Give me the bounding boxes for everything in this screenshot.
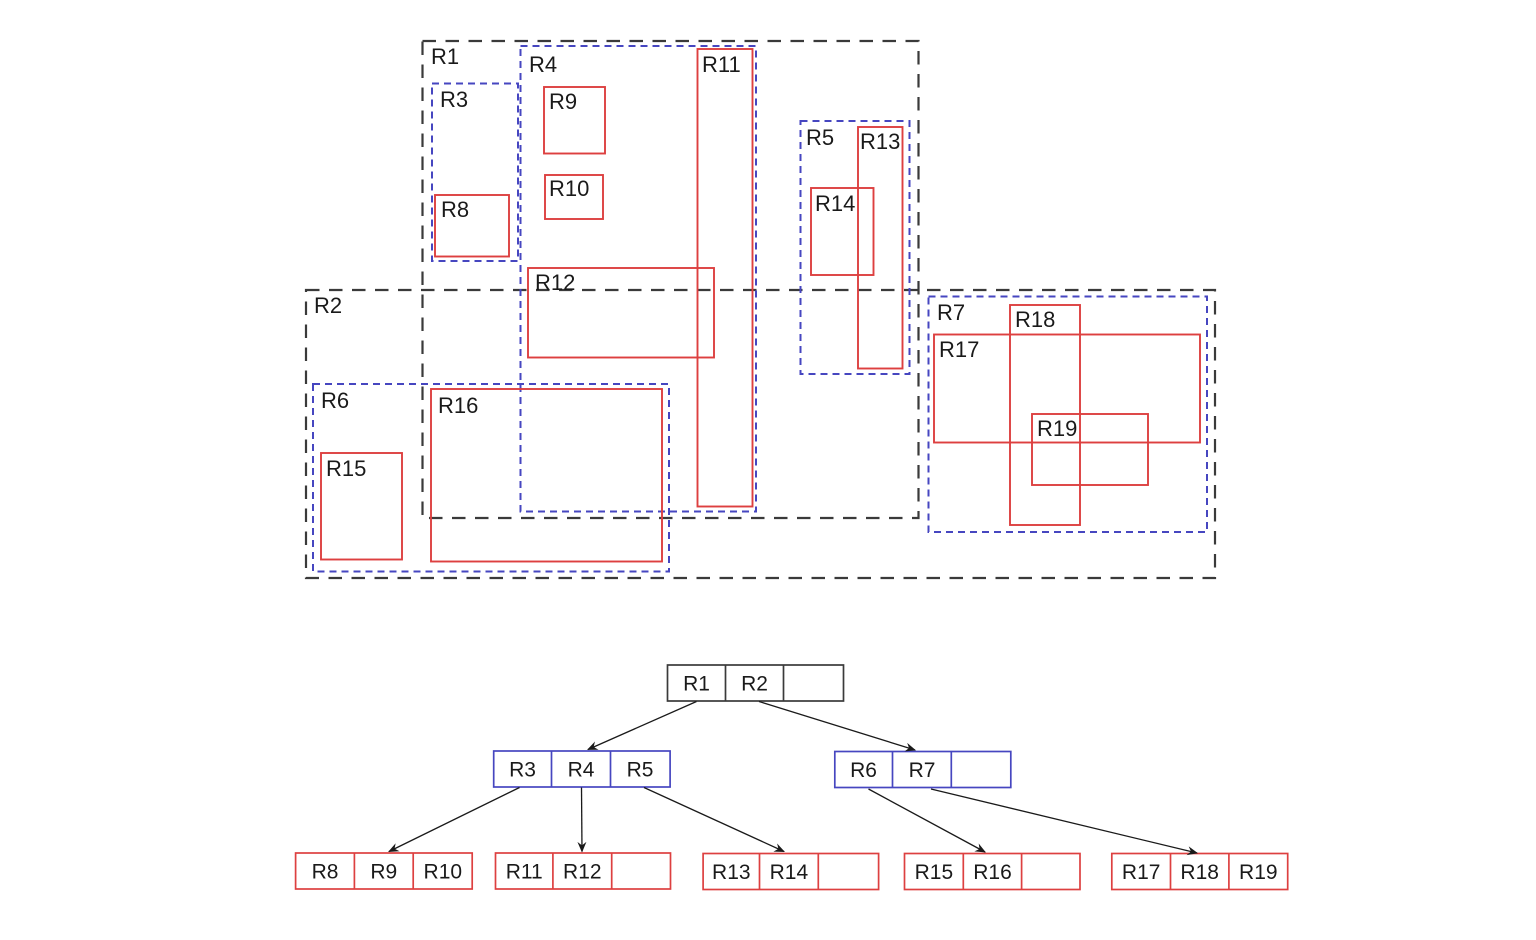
svg-text:R6: R6 xyxy=(850,759,877,782)
svg-text:R14: R14 xyxy=(770,861,809,884)
arrow root R1 cell to node R3R4R5 xyxy=(588,702,697,750)
svg-text:R15: R15 xyxy=(326,456,366,481)
svg-text:R9: R9 xyxy=(370,861,397,884)
svg-text:R8: R8 xyxy=(312,861,339,884)
svg-text:R17: R17 xyxy=(939,337,979,362)
tree leaf [R13|R14| ] xyxy=(703,854,879,890)
arrow R4 cell to leaf R11R12 xyxy=(581,788,584,852)
svg-text:R15: R15 xyxy=(915,861,954,884)
node R6 (blue dashed region) xyxy=(313,384,669,572)
rect R14 (red) xyxy=(811,188,874,275)
svg-text:R4: R4 xyxy=(529,52,557,77)
svg-text:R5: R5 xyxy=(627,759,654,782)
arrow root R2 cell to node R6R7 xyxy=(759,702,915,751)
rect R16 (red) xyxy=(431,389,662,562)
svg-text:R2: R2 xyxy=(314,293,342,318)
rect R19 (red) xyxy=(1032,414,1148,485)
rect R12 (red) xyxy=(528,268,714,358)
tree node [R6|R7| ] xyxy=(835,752,1011,788)
svg-text:R1: R1 xyxy=(431,44,459,69)
arrow R7 cell to leaf R17R18R19 xyxy=(931,789,1197,853)
svg-text:R11: R11 xyxy=(702,52,741,77)
tree leaf [R15|R16| ] xyxy=(905,854,1081,890)
node R2 (black dashed region) xyxy=(306,290,1215,578)
node R4 (blue dashed region) xyxy=(521,46,757,512)
svg-text:R14: R14 xyxy=(815,191,855,216)
arrow R3 cell to leaf R8R9R10 xyxy=(389,788,520,852)
svg-text:R7: R7 xyxy=(909,759,936,782)
svg-text:R13: R13 xyxy=(712,861,751,884)
svg-text:R12: R12 xyxy=(535,270,575,295)
rect R10 (red) xyxy=(545,175,603,219)
tree root node [R1|R2| ] xyxy=(668,665,844,701)
tree leaf [R8|R9|R10] xyxy=(296,853,473,889)
svg-text:R16: R16 xyxy=(438,393,478,418)
svg-text:R7: R7 xyxy=(937,300,965,325)
svg-text:R11: R11 xyxy=(506,861,543,884)
svg-text:R10: R10 xyxy=(424,861,463,884)
svg-text:R8: R8 xyxy=(441,197,469,222)
svg-text:R3: R3 xyxy=(509,759,536,782)
arrow R5 cell to leaf R13R14 xyxy=(644,788,784,852)
node R3 (blue dashed region) xyxy=(432,84,518,262)
svg-text:R9: R9 xyxy=(549,89,577,114)
svg-text:R13: R13 xyxy=(860,129,900,154)
svg-text:R16: R16 xyxy=(973,861,1012,884)
svg-text:R4: R4 xyxy=(568,759,595,782)
svg-text:R18: R18 xyxy=(1015,307,1055,332)
node R1 (black dashed region) xyxy=(423,41,919,518)
rect R15 (red) xyxy=(321,453,402,560)
rect R11 (red) xyxy=(698,49,753,507)
node R7 (blue dashed region) xyxy=(929,297,1208,533)
svg-text:R1: R1 xyxy=(683,673,710,696)
svg-text:R2: R2 xyxy=(741,673,768,696)
rect R8 (red) xyxy=(435,195,509,257)
tree leaf [R11|R12| ] xyxy=(496,853,671,889)
svg-text:R12: R12 xyxy=(563,861,602,884)
rect R9 (red) xyxy=(544,87,605,154)
svg-text:R10: R10 xyxy=(549,176,589,201)
svg-text:R18: R18 xyxy=(1180,861,1219,884)
svg-text:R19: R19 xyxy=(1037,416,1077,441)
node R5 (blue dashed region) xyxy=(801,121,910,374)
rect R13 (red) xyxy=(858,127,903,369)
svg-text:R6: R6 xyxy=(321,388,349,413)
rect R18 (red) xyxy=(1010,305,1080,525)
rect R17 (red) xyxy=(934,335,1200,443)
arrow R6 cell to leaf R15R16 xyxy=(869,789,986,852)
svg-text:R5: R5 xyxy=(806,125,834,150)
svg-text:R19: R19 xyxy=(1239,861,1278,884)
tree leaf [R17|R18|R19] xyxy=(1112,854,1288,890)
svg-text:R17: R17 xyxy=(1122,861,1161,884)
svg-text:R3: R3 xyxy=(440,87,468,112)
tree node [R3|R4|R5] xyxy=(494,751,670,787)
